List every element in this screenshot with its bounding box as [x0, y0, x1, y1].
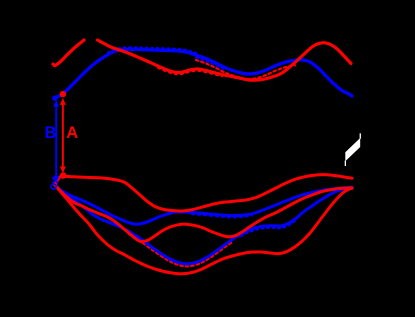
svg-text:A: A — [66, 124, 78, 142]
svg-text:B: B — [45, 124, 57, 142]
